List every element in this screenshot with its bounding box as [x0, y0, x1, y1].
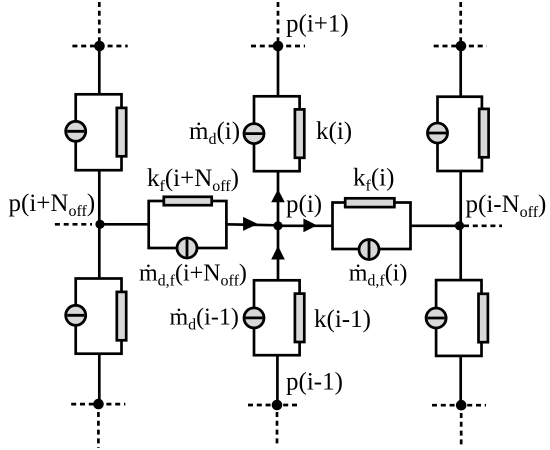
arrow up below node p(i) — [271, 246, 285, 260]
wire loop right-bottom branch — [436, 280, 481, 356]
node bottom-right junction — [456, 400, 467, 411]
wire loop right-top branch — [438, 97, 482, 171]
wire dashed horizontal top-center — [251, 45, 305, 48]
flow source (right bottom branch) — [426, 308, 446, 328]
wire top-left feed — [98, 46, 101, 95]
resistor (right top branch) — [479, 109, 488, 157]
wire loop left-bottom branch — [76, 279, 122, 354]
flow source m_d(i) — [244, 124, 264, 144]
wire dashed out of node p(i-N_off) — [464, 224, 502, 227]
svg-text:k(i): k(i) — [316, 118, 352, 145]
wire dashed vertical top-center — [277, 2, 280, 43]
resistor (left bottom branch) — [117, 292, 126, 340]
wire center below node — [277, 226, 280, 280]
flow source m_d,f(i+N_off) — [177, 238, 197, 258]
wire center top feed — [277, 46, 280, 96]
flow source (right top branch) — [428, 123, 448, 143]
wire dashed horizontal top-right — [434, 45, 487, 48]
resistor (left top branch) — [117, 108, 126, 156]
wire dashed horizontal top-left — [72, 45, 127, 48]
svg-text:kf(i): kf(i) — [353, 165, 394, 195]
node top-left junction — [94, 41, 105, 52]
wire loop left-top branch — [76, 94, 122, 170]
svg-text:p(i-1): p(i-1) — [286, 369, 343, 396]
node p(i) — [273, 221, 282, 230]
wire right column mid lower — [459, 226, 462, 280]
flow source (left top branch) — [66, 121, 86, 141]
node p(i-N_off) — [455, 221, 464, 230]
wire dashed vertical top-left — [98, 2, 101, 43]
flow source m_d,f(i) — [359, 240, 379, 260]
node p(i+N_off) — [95, 220, 104, 229]
wire dashed into node p(i+N_off) — [55, 223, 92, 226]
node bottom-center junction — [272, 400, 283, 411]
resistor k(i-1) — [295, 294, 304, 342]
wire right horizontal loop to node p(i-N_off) — [411, 224, 460, 227]
svg-text:p(i+1): p(i+1) — [286, 11, 349, 38]
wire loop right horizontal branch — [333, 203, 411, 250]
wire node p(i+N_off) to left horizontal loop — [100, 223, 149, 226]
node p(i+1) junction — [273, 41, 284, 52]
resistor k_f(i) — [345, 198, 394, 207]
arrow up above node p(i) — [271, 189, 285, 202]
svg-text:k(i-1): k(i-1) — [314, 306, 371, 333]
svg-text:ṁd(i-1): ṁd(i-1) — [170, 305, 239, 334]
wire left column bottom feed — [98, 354, 101, 404]
arrow right into node p(i) — [243, 217, 258, 231]
resistor (right bottom branch) — [479, 294, 488, 342]
wire dashed horizontal bottom-left — [71, 403, 125, 406]
wire dashed vertical bottom-right — [460, 413, 463, 448]
node bottom-left junction — [93, 399, 104, 410]
wire dashed horizontal bottom-right — [432, 404, 486, 407]
node top-right junction — [456, 41, 467, 52]
wire right column bottom feed — [459, 356, 462, 405]
arrow right out of node p(i) — [303, 219, 317, 233]
wire left column mid lower — [98, 224, 101, 278]
wire left horizontal loop to node p(i) — [226, 224, 278, 225]
flow source m_d(i-1) — [244, 308, 264, 328]
resistor k(i) — [295, 109, 304, 157]
wire dashed vertical top-right — [459, 2, 462, 43]
resistor k_f(i+N_off) — [164, 197, 212, 205]
wire left column mid upper — [98, 170, 101, 224]
wire center above node — [277, 171, 280, 226]
svg-text:p(i): p(i) — [286, 191, 322, 218]
wire center bottom feed — [276, 355, 279, 405]
wire loop center-top branch — [254, 96, 300, 171]
wire right column mid upper — [459, 171, 462, 226]
wire dashed vertical bottom-center — [276, 412, 279, 447]
wire dashed vertical bottom-left — [97, 412, 100, 448]
wire loop center-bottom branch — [254, 280, 300, 355]
wire dashed horizontal bottom-center — [248, 404, 300, 407]
wire node p(i) to right horizontal loop — [278, 224, 333, 227]
wire loop left horizontal branch — [149, 201, 227, 248]
flow source (left bottom branch) — [66, 305, 86, 325]
wire right top feed — [459, 46, 462, 97]
